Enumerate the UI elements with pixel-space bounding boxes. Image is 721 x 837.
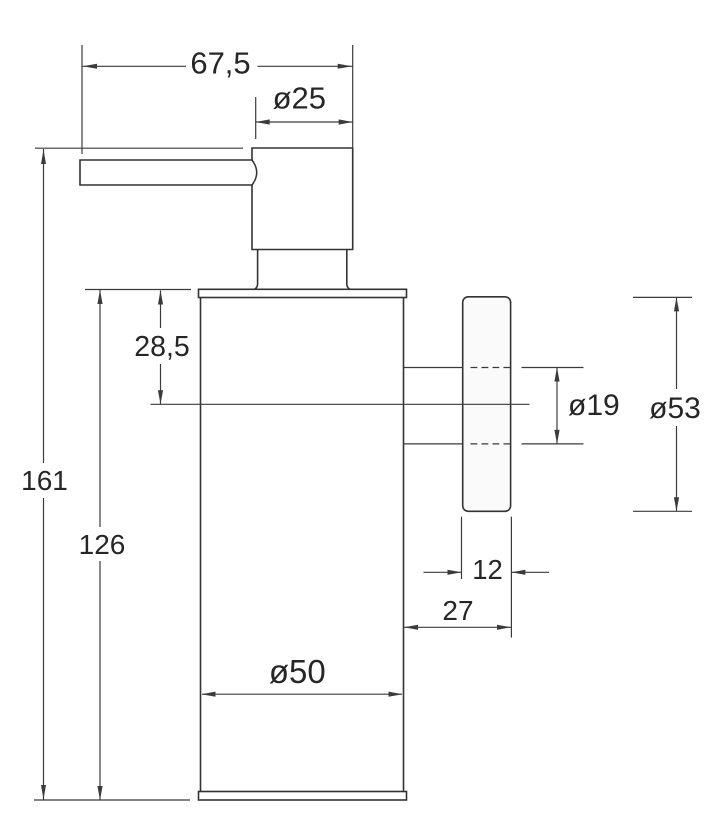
dimension 28,5	[160, 291, 162, 405]
dimension 126	[99, 290, 101, 800]
svg-text:67,5: 67,5	[190, 45, 250, 80]
svg-text:126: 126	[79, 529, 126, 560]
body fill	[201, 298, 404, 792]
extension line 12/27 right	[510, 517, 512, 638]
mount top line solid right	[522, 367, 584, 369]
extension line 67,5 left	[81, 45, 83, 154]
extension line o25 left	[255, 97, 257, 139]
pump head outline	[252, 148, 353, 250]
mount bottom line dashed across plate	[471, 443, 512, 445]
svg-text:28,5: 28,5	[134, 331, 189, 363]
bottom cap outline	[199, 792, 407, 801]
extension tick o53 top	[633, 296, 692, 298]
bottom cap fill	[199, 792, 407, 801]
dimension 12	[424, 571, 550, 573]
dimension o50	[202, 693, 402, 695]
extension line 12 left	[461, 517, 463, 579]
spout outline	[80, 160, 252, 185]
neck outline	[254, 250, 350, 290]
dimension o53	[676, 297, 678, 511]
spout end arc	[252, 160, 257, 185]
mount bottom line solid right	[522, 443, 584, 445]
dimension o19	[556, 368, 558, 444]
dimension o25	[256, 121, 353, 123]
svg-text:161: 161	[21, 465, 68, 496]
svg-text:12: 12	[472, 554, 503, 585]
extension line bottom	[34, 799, 190, 801]
mount top line dashed across plate	[471, 367, 512, 369]
extension line top left	[35, 147, 243, 149]
body outline	[201, 298, 404, 792]
svg-text:ø19: ø19	[568, 389, 620, 422]
centre line	[151, 403, 530, 405]
wall plate	[463, 297, 511, 512]
extension line cap top	[85, 289, 191, 291]
dimension 161	[43, 149, 45, 800]
svg-text:ø53: ø53	[649, 392, 701, 425]
svg-text:ø25: ø25	[273, 81, 326, 116]
top cap outline	[199, 289, 407, 297]
pump head fill	[252, 148, 353, 250]
mount top line solid left	[404, 367, 463, 369]
extension tick o53 bottom	[633, 510, 692, 512]
top cap fill	[199, 289, 407, 297]
svg-text:ø50: ø50	[269, 653, 326, 690]
spout fill	[80, 160, 252, 185]
neck fill	[254, 250, 351, 290]
dimension 27	[404, 626, 511, 628]
dimension 67,5	[82, 65, 353, 67]
svg-text:27: 27	[442, 595, 473, 626]
mount bottom line solid left	[404, 443, 463, 445]
extension line right (67,5 and o25)	[352, 45, 354, 148]
